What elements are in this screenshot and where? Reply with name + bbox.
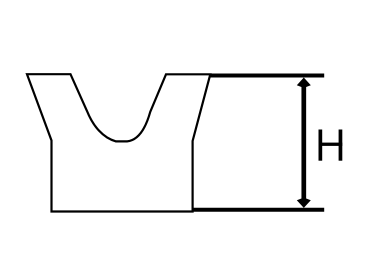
- label H: [319, 130, 343, 161]
- seal cross-section profile outline: [27, 74, 210, 211]
- top arrowhead: [297, 78, 311, 88]
- bottom arrowhead: [297, 199, 311, 208]
- bottom extension line: [193, 208, 324, 212]
- top extension line: [210, 74, 324, 78]
- dimension arrow shaft: [301, 82, 306, 203]
